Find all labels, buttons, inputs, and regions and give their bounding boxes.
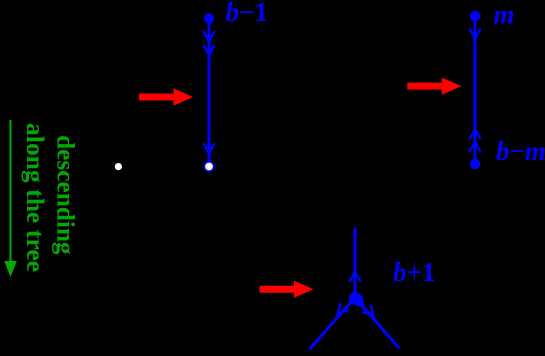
svg-text:b+1: b+1 xyxy=(393,257,435,287)
svg-text:m: m xyxy=(494,0,515,29)
svg-text:descending: descending xyxy=(51,135,79,255)
svg-text:along the tree: along the tree xyxy=(21,123,49,272)
svg-text:b−m: b−m xyxy=(496,136,545,166)
svg-text:b−1: b−1 xyxy=(226,0,268,27)
